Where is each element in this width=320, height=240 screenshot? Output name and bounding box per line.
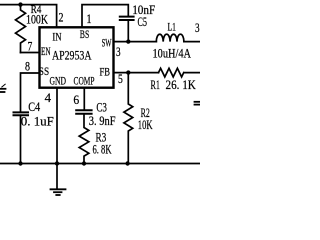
wire SS pin 8 bbox=[21, 73, 40, 111]
node R3-gnd dot bbox=[82, 161, 86, 165]
node VIN junction dot bbox=[18, 2, 22, 6]
capacitor C5 bbox=[120, 16, 134, 18]
node R2-gnd dot bbox=[125, 161, 129, 165]
resistor R4 bbox=[16, 5, 26, 53]
wire COMP pin 6 bbox=[83, 88, 85, 110]
ground bus bbox=[0, 163, 200, 165]
capacitor C4 bbox=[14, 111, 29, 113]
svg-text:26. 1K: 26. 1K bbox=[166, 78, 196, 92]
wire C4 to ground bus bbox=[20, 116, 22, 163]
svg-text:7: 7 bbox=[28, 39, 33, 54]
svg-text:2: 2 bbox=[59, 10, 64, 24]
ground symbol bbox=[51, 188, 66, 190]
svg-text:4: 4 bbox=[45, 91, 52, 105]
wire FB pin 5 bbox=[114, 72, 159, 74]
svg-text:SW: SW bbox=[102, 38, 112, 50]
svg-text:C3: C3 bbox=[96, 101, 107, 115]
wire SW pin 3 bbox=[114, 41, 157, 43]
svg-text:GND: GND bbox=[50, 73, 67, 87]
wire L1 to output bbox=[184, 41, 200, 43]
svg-text:100K: 100K bbox=[26, 13, 48, 27]
wire C5 to SW bbox=[127, 21, 129, 42]
svg-text:0. 1uF: 0. 1uF bbox=[21, 115, 54, 129]
svg-text:AP2953A: AP2953A bbox=[52, 48, 92, 63]
svg-text:3: 3 bbox=[195, 21, 200, 35]
IC U1 AP2953A regulator body bbox=[40, 27, 114, 87]
svg-text:SS: SS bbox=[39, 66, 49, 78]
svg-text:FB: FB bbox=[100, 67, 111, 79]
resistor R2 bbox=[124, 73, 133, 164]
resistor R1 bbox=[159, 68, 184, 77]
node SW-C5 dot bbox=[126, 39, 130, 43]
svg-text:C4: C4 bbox=[28, 100, 41, 114]
svg-text:10uH/4A: 10uH/4A bbox=[153, 47, 192, 61]
inductor L1 bbox=[156, 34, 184, 41]
node gnd-bus dot bbox=[55, 161, 59, 165]
svg-text:C5: C5 bbox=[138, 15, 148, 29]
svg-text:1: 1 bbox=[86, 12, 91, 26]
svg-text:5: 5 bbox=[118, 72, 123, 86]
node FB junction dot bbox=[126, 70, 130, 74]
capacitor output (cut at right edge) bbox=[195, 101, 201, 103]
svg-text:BS: BS bbox=[80, 27, 90, 41]
svg-text:R1: R1 bbox=[151, 78, 161, 92]
svg-text:3. 9nF: 3. 9nF bbox=[89, 114, 116, 128]
wire EN pin 7 bbox=[21, 52, 40, 54]
node C4-gnd dot bbox=[18, 161, 22, 165]
svg-text:6: 6 bbox=[73, 93, 79, 107]
wire input top rail bbox=[0, 5, 57, 27]
svg-text:8: 8 bbox=[25, 59, 30, 74]
svg-text:6. 8K: 6. 8K bbox=[93, 143, 112, 157]
svg-text:IN: IN bbox=[52, 32, 62, 44]
svg-text:L1: L1 bbox=[168, 19, 177, 33]
svg-text:3: 3 bbox=[116, 45, 121, 59]
svg-text:10K: 10K bbox=[138, 118, 153, 132]
svg-text:EN: EN bbox=[41, 46, 51, 58]
wire BS pin 1 to C5 bbox=[82, 5, 128, 27]
resistor R3 bbox=[79, 115, 89, 164]
capacitor input (cut at left edge) bbox=[0, 88, 6, 90]
capacitor C3 bbox=[76, 109, 91, 111]
svg-text:COMP: COMP bbox=[74, 73, 95, 87]
wire GND pin 4 bbox=[56, 88, 58, 189]
wire R1 to output bbox=[184, 72, 200, 74]
